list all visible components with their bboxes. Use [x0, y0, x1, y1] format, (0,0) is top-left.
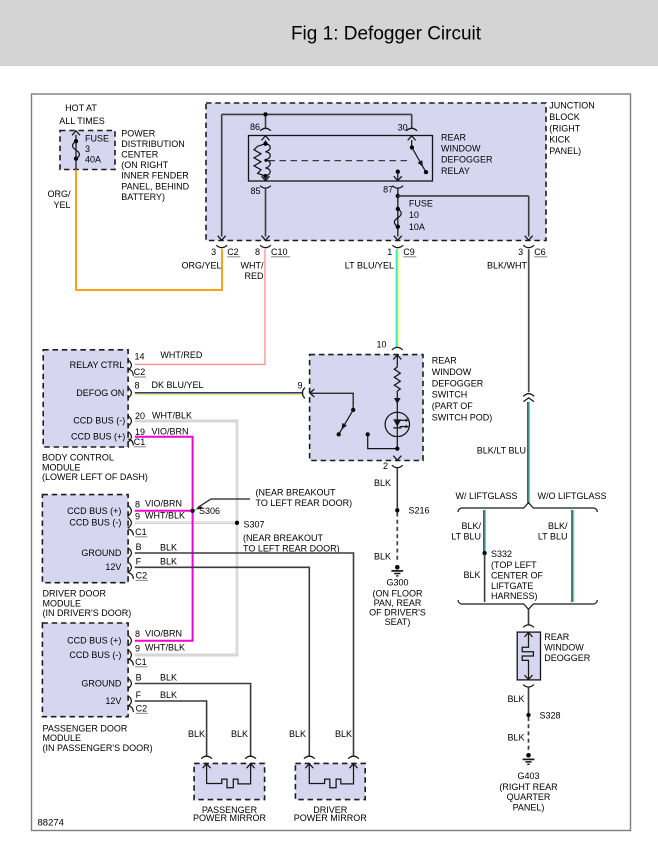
svg-text:REAR: REAR	[544, 632, 570, 642]
svg-text:CCD BUS (+): CCD BUS (+)	[71, 431, 125, 441]
svg-text:9: 9	[135, 644, 140, 654]
svg-text:KICK: KICK	[549, 135, 570, 145]
svg-text:2: 2	[383, 461, 388, 471]
svg-text:WINDOW: WINDOW	[441, 144, 481, 154]
svg-text:(TOP LEFT: (TOP LEFT	[491, 560, 537, 570]
svg-text:(RIGHT REAR: (RIGHT REAR	[499, 782, 558, 792]
svg-text:BODY CONTROL: BODY CONTROL	[42, 453, 114, 463]
svg-text:W/O LIFTGLASS: W/O LIFTGLASS	[538, 491, 607, 501]
svg-text:12V: 12V	[105, 562, 121, 572]
svg-text:C10: C10	[271, 247, 288, 257]
svg-text:C2: C2	[136, 571, 148, 581]
svg-text:CCD BUS (+): CCD BUS (+)	[67, 506, 121, 516]
svg-text:20: 20	[135, 411, 145, 421]
svg-text:BLOCK: BLOCK	[549, 112, 580, 122]
svg-text:BLK: BLK	[507, 733, 524, 743]
svg-text:9: 9	[297, 381, 302, 391]
svg-text:POWER MIRROR: POWER MIRROR	[193, 813, 266, 823]
svg-text:VIO/BRN: VIO/BRN	[145, 629, 182, 639]
svg-text:ALL TIMES: ALL TIMES	[59, 116, 105, 126]
svg-text:BLK: BLK	[374, 478, 391, 488]
svg-text:MODULE: MODULE	[42, 462, 81, 472]
svg-text:GROUND: GROUND	[81, 679, 121, 689]
svg-text:(NEAR BREAKOUT: (NEAR BREAKOUT	[256, 488, 337, 498]
svg-text:SEAT): SEAT)	[385, 617, 411, 627]
svg-text:LT BLU/YEL: LT BLU/YEL	[345, 261, 394, 271]
svg-text:40A: 40A	[85, 155, 101, 165]
svg-text:C2: C2	[136, 704, 148, 714]
svg-text:ORG/YEL: ORG/YEL	[181, 261, 221, 271]
svg-text:REAR: REAR	[432, 356, 458, 366]
svg-text:C6: C6	[534, 247, 546, 257]
svg-text:DEFOGGER: DEFOGGER	[432, 378, 484, 388]
svg-text:C2: C2	[227, 247, 239, 257]
svg-text:DRIVER DOOR: DRIVER DOOR	[43, 589, 107, 599]
svg-text:OF DRIVER'S: OF DRIVER'S	[369, 607, 426, 617]
svg-text:10A: 10A	[409, 222, 425, 232]
svg-text:PANEL): PANEL)	[513, 802, 545, 812]
svg-text:BLK: BLK	[463, 570, 480, 580]
svg-text:S307: S307	[244, 520, 265, 530]
svg-text:LT BLU: LT BLU	[451, 532, 481, 542]
svg-text:BLK: BLK	[160, 673, 177, 683]
svg-text:BLK: BLK	[160, 557, 177, 567]
svg-text:INNER FENDER: INNER FENDER	[121, 171, 189, 181]
svg-text:WHT/BLK: WHT/BLK	[145, 511, 185, 521]
svg-text:C1: C1	[135, 657, 147, 667]
svg-text:Fig 1: Defogger Circuit: Fig 1: Defogger Circuit	[291, 24, 482, 45]
svg-text:(IN DRIVER'S DOOR): (IN DRIVER'S DOOR)	[43, 608, 132, 618]
svg-text:BLK: BLK	[289, 729, 306, 739]
svg-text:3: 3	[518, 247, 523, 257]
svg-text:MODULE: MODULE	[43, 733, 82, 743]
svg-text:CCD BUS (-): CCD BUS (-)	[69, 518, 121, 528]
svg-text:CENTER: CENTER	[121, 150, 159, 160]
svg-text:19: 19	[135, 427, 145, 437]
svg-text:10: 10	[409, 210, 419, 220]
svg-text:BLK: BLK	[335, 729, 352, 739]
svg-text:BLK: BLK	[231, 729, 248, 739]
svg-text:POWER MIRROR: POWER MIRROR	[294, 813, 367, 823]
svg-text:(ON FLOOR: (ON FLOOR	[372, 588, 423, 598]
svg-text:(PART OF: (PART OF	[432, 401, 474, 411]
svg-text:88274: 88274	[38, 818, 64, 829]
svg-text:W/ LIFTGLASS: W/ LIFTGLASS	[456, 491, 518, 501]
svg-text:G403: G403	[517, 771, 539, 781]
svg-text:WHT/BLK: WHT/BLK	[145, 643, 185, 653]
svg-text:WINDOW: WINDOW	[544, 643, 584, 653]
svg-text:HARNESS): HARNESS)	[491, 591, 538, 601]
svg-text:PAN, REAR: PAN, REAR	[374, 598, 422, 608]
svg-text:REAR: REAR	[441, 133, 467, 143]
svg-text:(NEAR BREAKOUT: (NEAR BREAKOUT	[243, 533, 324, 543]
svg-text:BLK: BLK	[160, 542, 177, 552]
svg-text:(RIGHT: (RIGHT	[549, 123, 580, 133]
svg-text:GROUND: GROUND	[81, 548, 121, 558]
svg-text:LIFTGATE: LIFTGATE	[491, 581, 533, 591]
svg-text:C1: C1	[134, 437, 146, 447]
svg-text:C2: C2	[134, 367, 146, 377]
svg-text:BLK: BLK	[507, 694, 524, 704]
svg-text:3: 3	[211, 247, 216, 257]
svg-text:1: 1	[387, 247, 392, 257]
svg-text:S332: S332	[491, 549, 512, 559]
svg-text:F: F	[136, 556, 142, 566]
svg-text:ORG/: ORG/	[47, 189, 71, 199]
svg-text:(IN PASSENGER'S DOOR): (IN PASSENGER'S DOOR)	[43, 743, 153, 753]
svg-text:B: B	[136, 542, 142, 552]
svg-text:8: 8	[135, 499, 140, 509]
svg-text:14: 14	[135, 352, 145, 362]
svg-text:BLK/: BLK/	[548, 521, 568, 531]
svg-text:DISTRIBUTION: DISTRIBUTION	[121, 139, 185, 149]
svg-text:C9: C9	[403, 247, 415, 257]
svg-text:QUARTER: QUARTER	[507, 792, 551, 802]
svg-text:(LOWER LEFT OF DASH): (LOWER LEFT OF DASH)	[42, 472, 148, 482]
svg-text:BLK: BLK	[188, 729, 205, 739]
svg-text:85: 85	[250, 186, 260, 196]
svg-text:DK BLU/YEL: DK BLU/YEL	[152, 380, 204, 390]
svg-text:S328: S328	[540, 711, 561, 721]
svg-text:86: 86	[250, 122, 260, 132]
svg-text:BLK/WHT: BLK/WHT	[487, 261, 528, 271]
svg-text:SWITCH: SWITCH	[432, 390, 468, 400]
svg-text:RED: RED	[244, 271, 264, 281]
svg-text:LT BLU: LT BLU	[538, 532, 568, 542]
svg-text:WHT/BLK: WHT/BLK	[152, 411, 192, 421]
svg-text:WHT/: WHT/	[241, 261, 264, 271]
svg-text:PASSENGER DOOR: PASSENGER DOOR	[43, 723, 128, 733]
svg-text:YEL: YEL	[53, 200, 70, 210]
svg-text:WHT/RED: WHT/RED	[160, 350, 202, 360]
svg-text:F: F	[136, 690, 142, 700]
svg-text:BLK/: BLK/	[461, 521, 481, 531]
svg-text:8: 8	[135, 381, 140, 391]
svg-text:9: 9	[135, 511, 140, 521]
svg-text:G300: G300	[386, 578, 408, 588]
svg-text:HOT AT: HOT AT	[65, 103, 97, 113]
svg-text:CCD BUS (-): CCD BUS (-)	[73, 416, 125, 426]
svg-text:WINDOW: WINDOW	[432, 367, 472, 377]
svg-text:MODULE: MODULE	[43, 598, 82, 608]
svg-text:BLK/LT BLU: BLK/LT BLU	[477, 445, 526, 455]
svg-text:SWITCH POD): SWITCH POD)	[432, 413, 493, 423]
svg-text:TO LEFT REAR DOOR): TO LEFT REAR DOOR)	[243, 543, 340, 553]
svg-text:FUSE: FUSE	[409, 198, 433, 208]
svg-text:DEOGGER: DEOGGER	[544, 653, 591, 663]
svg-text:C1: C1	[135, 527, 147, 537]
svg-text:BLK: BLK	[160, 690, 177, 700]
svg-text:RELAY CTRL: RELAY CTRL	[70, 360, 125, 370]
svg-text:B: B	[136, 672, 142, 682]
svg-text:PANEL, BEHIND: PANEL, BEHIND	[121, 181, 189, 191]
svg-text:8: 8	[255, 247, 260, 257]
svg-text:8: 8	[135, 629, 140, 639]
svg-text:S216: S216	[409, 506, 430, 516]
svg-text:CCD BUS (+): CCD BUS (+)	[67, 636, 121, 646]
svg-text:30: 30	[398, 123, 408, 133]
svg-text:BATTERY): BATTERY)	[121, 192, 165, 202]
svg-text:BLK: BLK	[374, 552, 391, 562]
svg-text:FUSE: FUSE	[85, 134, 109, 144]
svg-text:VIO/BRN: VIO/BRN	[145, 499, 182, 509]
svg-text:RELAY: RELAY	[441, 166, 470, 176]
svg-text:PANEL): PANEL)	[549, 146, 581, 156]
svg-text:VIO/BRN: VIO/BRN	[152, 427, 189, 437]
svg-text:87: 87	[383, 185, 393, 195]
svg-text:CENTER OF: CENTER OF	[491, 571, 544, 581]
svg-text:3: 3	[85, 144, 90, 154]
svg-text:DEFOG ON: DEFOG ON	[76, 388, 124, 398]
svg-text:POWER: POWER	[121, 129, 156, 139]
svg-text:12V: 12V	[105, 696, 121, 706]
svg-text:CCD BUS (-): CCD BUS (-)	[69, 650, 121, 660]
svg-text:10: 10	[376, 340, 386, 350]
svg-text:JUNCTION: JUNCTION	[549, 101, 595, 111]
svg-text:DEFOGGER: DEFOGGER	[441, 155, 493, 165]
svg-text:(ON RIGHT: (ON RIGHT	[121, 160, 168, 170]
svg-text:TO LEFT REAR DOOR): TO LEFT REAR DOOR)	[256, 498, 353, 508]
